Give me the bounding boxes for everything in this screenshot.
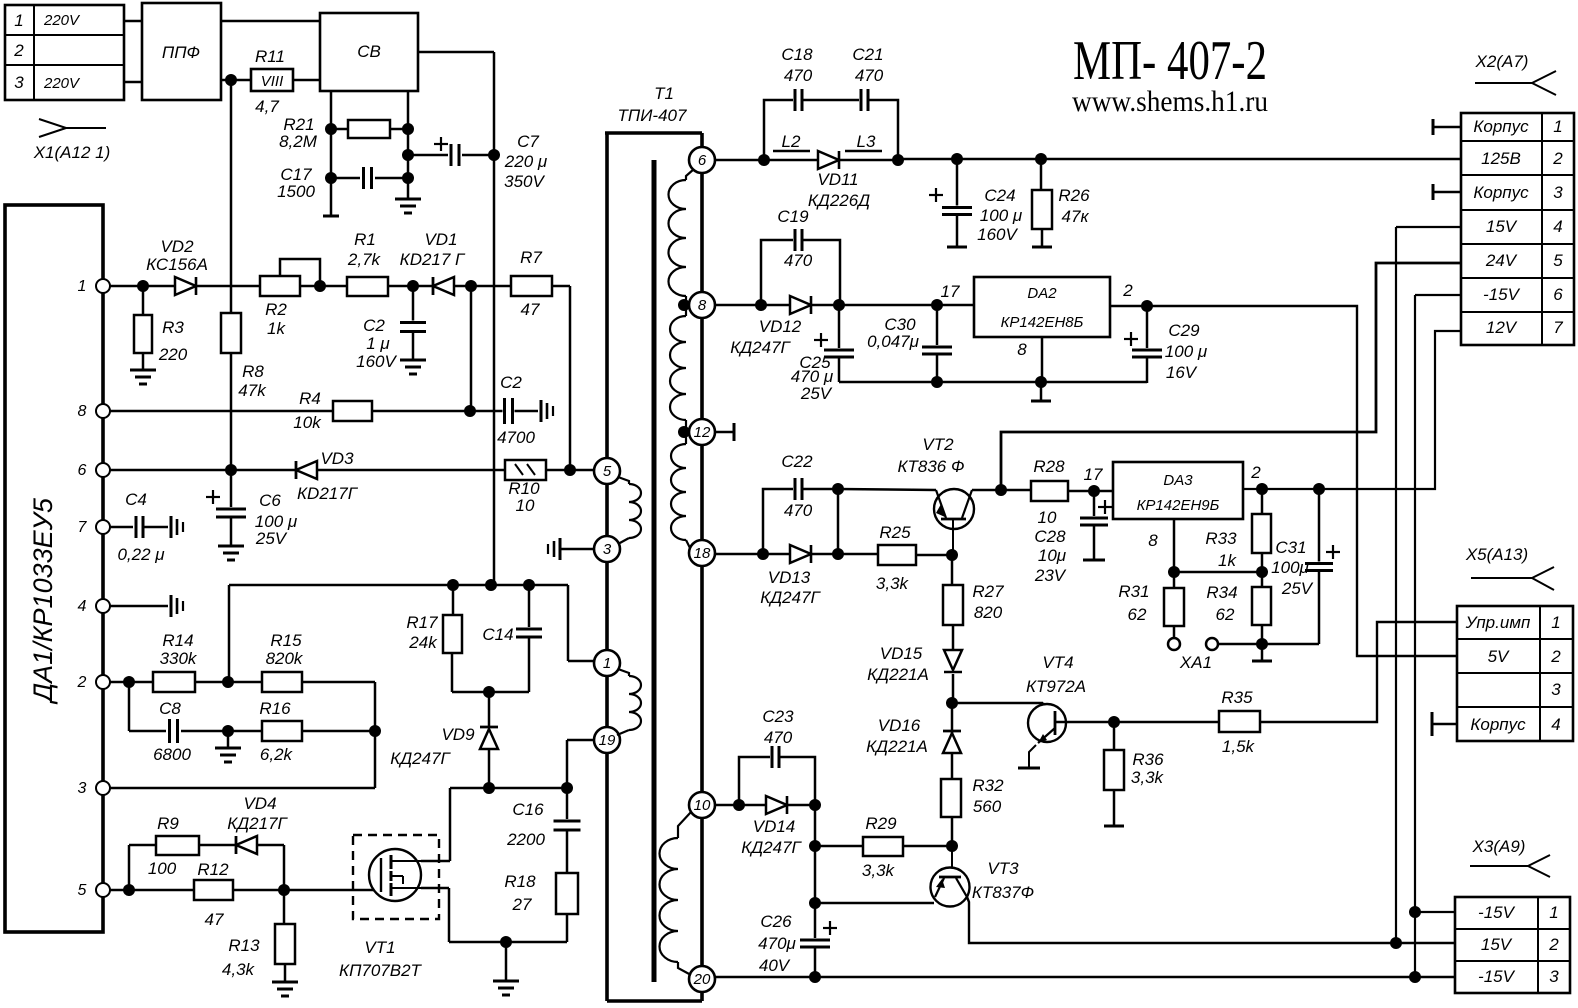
wire pin18 T1 row [715,553,790,556]
capacitor C29 100u 16V [1146,306,1149,350]
pin 8 of T1 [689,292,715,318]
svg-text:1: 1 [14,11,23,30]
svg-text:25V: 25V [800,384,833,403]
capacitor C23 470 [739,757,772,805]
svg-text:47k: 47k [238,381,267,400]
wire pin3 row [110,787,375,790]
svg-text:8,2М: 8,2М [279,132,318,151]
capacitor C21 470 [859,89,870,111]
svg-text:6: 6 [1553,285,1563,304]
svg-text:Упр.имп: Упр.имп [1465,613,1531,632]
capacitor C22 470 [763,489,795,554]
svg-text:5: 5 [603,463,612,480]
svg-text:40V: 40V [759,956,791,975]
wire VT2 emitter feed [838,489,936,490]
block SV (rectifier) [320,13,418,91]
svg-text:L3: L3 [857,132,876,151]
wire [195,681,262,684]
svg-text:R15: R15 [270,631,302,650]
chassis stub at pin 12 [715,431,734,434]
pin 8 of DA1 [96,404,110,418]
capacitor C6 100u 25V [230,470,233,509]
svg-text:КС156А: КС156А [146,255,208,274]
svg-text:DA2: DA2 [1027,285,1057,302]
transformer T1 core [652,160,657,982]
svg-text:X3(A9): X3(A9) [1472,837,1526,856]
svg-text:5: 5 [1553,251,1563,270]
wire [470,286,473,411]
svg-text:25V: 25V [255,529,288,548]
pin 6 of T1 [689,147,715,173]
pin 20 of T1 [689,966,715,992]
wire [916,554,952,557]
svg-text:27: 27 [512,895,532,914]
svg-text:1k: 1k [267,319,286,338]
resistor R12 47 [194,880,233,900]
svg-text:4: 4 [78,598,87,615]
svg-text:8: 8 [698,297,707,314]
resistor R16 6.2k [262,721,302,741]
capacitor C28 10u 23V [1093,491,1096,518]
svg-text:1: 1 [1549,903,1558,922]
resistor R26 47k [1040,159,1043,190]
svg-text:Т1: Т1 [654,84,674,103]
capacitor C2 4700 [503,398,515,424]
svg-text:VD9: VD9 [441,725,475,744]
svg-text:КД226Д: КД226Д [808,191,870,210]
winding 8-12 [684,305,686,316]
node [946,840,958,852]
capacitor C4 0.22u [110,526,133,529]
wire pin4 row [110,605,168,608]
svg-text:Корпус: Корпус [1473,117,1529,136]
svg-text:КТ972А: КТ972А [1026,677,1086,696]
svg-text:R36: R36 [1132,750,1164,769]
svg-text:ППФ: ППФ [162,43,200,62]
svg-text:160V: 160V [356,352,397,371]
svg-text:470: 470 [784,501,813,520]
svg-text:L2: L2 [782,132,801,151]
svg-text:ДА1/КР1033ЕУ5: ДА1/КР1033ЕУ5 [28,497,58,705]
svg-text:C8: C8 [159,699,181,718]
svg-text:1: 1 [78,278,87,295]
winding 5-3 [618,477,629,484]
wire pin6 T1 row [715,159,818,162]
svg-text:1500: 1500 [277,182,315,201]
transformer T1 frame bottom [607,999,702,1003]
svg-text:2: 2 [1122,281,1133,300]
pin 7 of DA1 [96,520,110,534]
svg-text:2: 2 [1552,149,1563,168]
svg-text:3: 3 [603,541,612,558]
inductor L2 [773,150,810,153]
pin 1 of DA1 [96,279,110,293]
svg-text:КД217Г: КД217Г [227,814,288,833]
wire DA2 to X5 5V [1147,306,1457,656]
svg-text:X1(A12 1): X1(A12 1) [33,143,111,162]
svg-text:8: 8 [1148,531,1158,550]
svg-text:470μ: 470μ [758,934,796,953]
wire pin8 T1 row [715,304,790,307]
ground [218,545,244,548]
wire [452,691,529,694]
winding 10-20 [678,812,691,838]
wire [181,730,262,733]
pin 4 of DA1 [96,599,110,613]
svg-text:C29: C29 [1168,321,1200,340]
connector terminal block 220V [5,5,124,100]
block PPF (mains filter) [142,3,221,100]
capacitor C14 [528,585,531,628]
wire DA2 out [1110,305,1147,308]
svg-text:VD11: VD11 [817,170,858,189]
node [325,123,337,135]
svg-text:СВ: СВ [357,42,381,61]
pin 2 of DA1 [96,675,110,689]
svg-text:1: 1 [603,655,611,672]
svg-text:2: 2 [1550,647,1561,666]
wire VT4 collector [1055,721,1114,724]
svg-text:C16: C16 [512,800,544,819]
svg-text:5: 5 [78,882,87,899]
svg-text:R31: R31 [1118,582,1149,601]
wire [302,681,375,684]
svg-text:C19: C19 [777,207,809,226]
wire [372,410,538,413]
svg-text:R18: R18 [504,872,536,891]
svg-text:820: 820 [974,603,1003,622]
svg-text:C14: C14 [482,625,513,644]
svg-text:4700: 4700 [497,428,535,447]
capacitor C31 100u 25V [1318,489,1321,563]
svg-text:C22: C22 [781,452,813,471]
svg-text:2200: 2200 [506,830,545,849]
svg-text:R2: R2 [265,300,287,319]
svg-text:6800: 6800 [153,745,191,764]
svg-text:2: 2 [1250,463,1261,482]
svg-text:3: 3 [78,780,87,797]
pin 12 of T1 [689,419,715,445]
connector X1(A12 1) [39,119,66,128]
svg-text:6: 6 [698,152,707,169]
svg-text:C2: C2 [500,373,522,392]
svg-text:4: 4 [1553,217,1562,236]
wire [221,79,251,82]
svg-text:470: 470 [784,66,813,85]
svg-text:R13: R13 [228,936,260,955]
wire [787,804,815,807]
contact XA1 b [1206,638,1218,650]
svg-text:R7: R7 [520,248,542,267]
svg-text:220: 220 [158,345,188,364]
contact XA1 a [1168,638,1180,650]
svg-text:R33: R33 [1205,529,1237,548]
wire pin2 to node A [228,585,231,682]
svg-text:КР142ЕН9Б: КР142ЕН9Б [1137,497,1220,514]
svg-text:VD1: VD1 [424,230,457,249]
svg-text:3: 3 [1553,183,1563,202]
wire -15V bottom rail [715,976,1415,978]
pin 5 of T1 [594,458,620,484]
wire [811,304,974,307]
resistor R36 3.3k [1113,722,1116,750]
resistor R2 (with tap) [260,276,300,296]
wire VT1 drain [421,860,450,863]
resistor R1 [347,277,388,296]
diode VD1 KD217G [432,277,435,295]
wire [293,79,320,82]
capacitor C17 [331,177,360,180]
node [137,280,149,292]
resistor R11 [251,69,293,91]
svg-text:10k: 10k [293,413,322,432]
capacitor C18 470 [764,100,795,160]
svg-text:МП- 407-2: МП- 407-2 [1073,30,1267,92]
IC DA2 KR142EN8B [974,277,1110,337]
svg-text:R17: R17 [406,613,438,632]
wire DA2 pin8 [1041,337,1044,382]
svg-text:R35: R35 [1221,688,1253,707]
svg-text:R28: R28 [1033,457,1065,476]
svg-text:3: 3 [14,73,24,92]
svg-text:15V: 15V [1486,217,1518,236]
svg-text:47: 47 [521,300,540,319]
chassis stub X2 pin3 [1432,184,1435,200]
svg-text:17: 17 [941,282,960,301]
svg-text:7: 7 [78,519,88,536]
wire pin10 T1 row [715,804,766,807]
wire [407,91,410,199]
chassis stub at pin 3 of T1 [560,548,594,551]
svg-text:КД247Г: КД247Г [390,749,451,768]
svg-text:Корпус: Корпус [1473,183,1529,202]
wire [811,553,878,556]
svg-text:КП707В2Т: КП707В2Т [339,961,422,980]
svg-text:VD12: VD12 [759,317,802,336]
svg-text:5V: 5V [1488,647,1510,666]
diode VD16 KD221A [951,703,954,733]
svg-text:3,3k: 3,3k [862,861,896,880]
chassis stub [540,400,543,422]
svg-text:VD4: VD4 [243,794,276,813]
svg-text:VD2: VD2 [160,237,194,256]
wire R35 to X5 pin1 [1260,622,1457,722]
svg-text:КД247Г: КД247Г [741,838,802,857]
svg-text:VT2: VT2 [922,435,954,454]
svg-text:1,5k: 1,5k [1222,737,1256,756]
svg-text:DA3: DA3 [1163,472,1193,489]
wire [257,844,284,847]
svg-text:C21: C21 [852,45,883,64]
capacitor C8 6800 [168,719,180,743]
svg-text:VD15: VD15 [880,644,923,663]
resistor R31 62 [1173,572,1176,588]
wire 125V rail [898,158,1461,161]
svg-text:12V: 12V [1486,318,1518,337]
wire VD15 node to VT4 base [952,702,1043,705]
diode VD9 KD247G [488,692,491,727]
svg-text:470: 470 [764,728,793,747]
svg-text:15V: 15V [1481,935,1513,954]
resistor R7 [511,276,552,296]
svg-text:1k: 1k [1218,551,1237,570]
resistor R3 [142,286,145,315]
wire pin6 row [110,469,296,472]
wire [802,99,861,102]
svg-text:VT3: VT3 [987,859,1019,878]
svg-text:C2: C2 [363,316,385,335]
svg-text:-15V: -15V [1483,285,1521,304]
chassis stub DA2 pin8 [1040,382,1043,400]
svg-text:R26: R26 [1058,186,1090,205]
resistor R15 820k [262,672,302,692]
svg-text:C4: C4 [125,490,147,509]
capacitor C26 470u 40V [823,927,837,929]
svg-text:3: 3 [1551,680,1561,699]
ground [505,942,508,981]
svg-text:23V: 23V [1034,566,1067,585]
svg-text:62: 62 [1128,605,1147,624]
wire [1068,490,1113,493]
resistor R13 4.3k [283,890,286,924]
svg-text:C23: C23 [762,707,794,726]
transformer T1 right column [700,133,704,147]
svg-text:КР142ЕН8Б: КР142ЕН8Б [1001,314,1084,331]
svg-text:C31: C31 [1275,538,1306,557]
ground [272,981,298,984]
resistor R35 1.5k [1114,721,1219,723]
chassis stub X2 pin1 [1432,119,1435,135]
svg-text:100 μ: 100 μ [980,206,1023,225]
pin 3 of DA1 [96,781,110,795]
wire VT3 emitter row [815,902,934,905]
svg-text:20: 20 [693,971,711,988]
wire [233,889,381,892]
svg-text:2: 2 [1548,935,1559,954]
resistor R29 3.3k [815,845,863,848]
connector X5(A13) table [1457,606,1573,741]
IC DA3 KR142EN9B [1113,462,1243,519]
resistor R28 10 [1031,481,1068,501]
pin 10 of T1 [689,792,715,818]
svg-text:R25: R25 [879,523,911,542]
pin 5 of DA1 [96,883,110,897]
resistor R33 1k [1261,489,1264,514]
svg-text:220V: 220V [43,75,81,92]
svg-text:4: 4 [1551,715,1560,734]
svg-text:0,047μ: 0,047μ [867,332,920,351]
svg-text:КД221А: КД221А [867,665,929,684]
svg-text:C24: C24 [984,186,1015,205]
wire R9 branch [128,845,131,890]
resistor R18 27 [556,873,578,914]
svg-text:C18: C18 [781,45,813,64]
capacitor C24 100u 160V [956,159,959,207]
svg-text:2: 2 [13,41,24,60]
diode VD3 KD217G [295,461,298,479]
svg-text:24V: 24V [1485,251,1518,270]
svg-text:VD16: VD16 [878,716,921,735]
svg-text:6: 6 [78,462,87,479]
wire C8 branch [128,682,131,731]
capacitor C19 470 [761,240,795,305]
wire [221,20,320,23]
wire [330,91,333,216]
svg-text:16V: 16V [1166,363,1198,382]
diode VD13 KD247G [790,545,811,563]
svg-text:R9: R9 [157,814,179,833]
svg-text:100 μ: 100 μ [1165,342,1208,361]
wire [124,20,142,23]
svg-text:10: 10 [1038,508,1057,527]
wire [546,469,596,472]
svg-text:0,22 μ: 0,22 μ [117,545,165,564]
svg-text:R34: R34 [1206,583,1237,602]
svg-text:VD14: VD14 [753,817,796,836]
svg-text:12: 12 [694,424,711,441]
svg-text:8: 8 [1017,340,1027,359]
svg-text:VT1: VT1 [364,938,395,957]
connector X3(A9) table [1455,897,1570,993]
svg-text:VD13: VD13 [768,568,811,587]
ground [395,198,421,201]
svg-text:C7: C7 [517,132,539,151]
svg-text:100μ: 100μ [1271,558,1309,577]
svg-text:560: 560 [973,797,1002,816]
transistor VT3 KT837F [951,846,953,869]
svg-text:R8: R8 [242,362,264,381]
svg-text:19: 19 [599,732,616,749]
resistor R25 3.3k [878,545,916,565]
svg-text:КD217Г: КD217Г [297,484,359,503]
transformer T1 frame left [605,133,609,458]
IC DA1 KR1033EU5 [5,205,103,932]
svg-text:1 μ: 1 μ [366,334,390,353]
wire pin1 row [110,285,260,288]
capacitor C7 [402,149,414,161]
wire pin2 row [110,681,153,684]
capacitor C30 0.047u [936,305,939,347]
svg-text:X2(A7): X2(A7) [1475,52,1529,71]
svg-text:КД247Г: КД247Г [760,588,821,607]
wire ground row DA2 [839,381,1147,384]
svg-text:350V: 350V [504,172,545,191]
winding 12-18 [684,432,686,444]
wire [552,285,570,288]
resistor R27 820 [951,555,954,585]
diode VD11 KD226D [818,151,839,169]
svg-text:R12: R12 [197,860,229,879]
svg-text:-15V: -15V [1478,903,1516,922]
svg-text:R11: R11 [255,47,285,66]
transistor VT4 KT972A [1028,704,1066,742]
wire VT1 source [421,887,449,890]
svg-text:VT4: VT4 [1042,653,1073,672]
ground [130,369,156,372]
svg-text:10: 10 [694,797,711,814]
svg-text:220V: 220V [43,12,81,29]
diode VD14 KD247G [766,796,787,814]
svg-text:17: 17 [1084,465,1103,484]
svg-text:X5(A13): X5(A13) [1465,545,1528,564]
svg-text:2,7k: 2,7k [347,250,382,269]
pin 18 of T1 [689,540,715,566]
wire [839,159,898,162]
capacitor C2 1u [412,286,415,322]
diode VD15 KD221A [944,650,962,670]
resistor R8 47k [221,313,241,353]
svg-text:10: 10 [516,496,535,515]
